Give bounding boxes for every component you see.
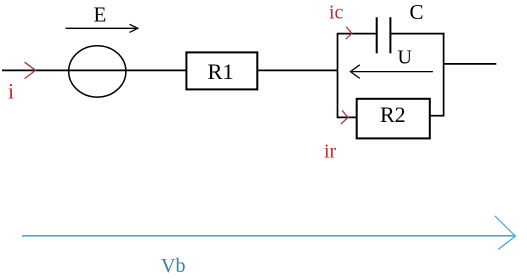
arrow for U (pointing left) <box>350 71 433 73</box>
current arrow i (red chevron on input wire) <box>25 62 36 78</box>
wire: bottom branch right segment <box>430 115 445 117</box>
svg-text:i: i <box>8 79 14 104</box>
resistor R1 <box>186 52 257 89</box>
wire: right vertical of parallel branch <box>443 33 445 117</box>
svg-text:ic: ic <box>329 1 344 23</box>
svg-text:C: C <box>410 0 424 24</box>
source (circle) <box>69 46 126 97</box>
wire: main input wire from left edge to left vertical of parallel section <box>2 69 338 71</box>
svg-text:Vb: Vb <box>161 255 185 277</box>
svg-text:R2: R2 <box>380 102 406 127</box>
capacitor C : left plate <box>376 17 378 53</box>
resistor R2 <box>357 99 430 139</box>
Vb arrow (cyan, pointing right) <box>22 235 515 237</box>
current arrow ic (red chevron on top branch) <box>346 27 352 39</box>
wire: top branch left segment <box>338 33 377 35</box>
arrow for E (pointing right) <box>66 27 138 29</box>
wire: bottom branch left segment <box>338 116 357 118</box>
svg-text:R1: R1 <box>208 59 234 84</box>
wire: left vertical of parallel branch <box>337 33 339 118</box>
capacitor C : right plate <box>389 17 391 53</box>
svg-text:ir: ir <box>324 141 337 163</box>
current arrow ir (red chevron on bottom branch) <box>341 110 348 124</box>
svg-text:U: U <box>398 46 413 68</box>
wire: top branch right segment <box>390 33 444 35</box>
svg-text:E: E <box>94 2 107 26</box>
wire: output wire to the right <box>444 63 497 65</box>
